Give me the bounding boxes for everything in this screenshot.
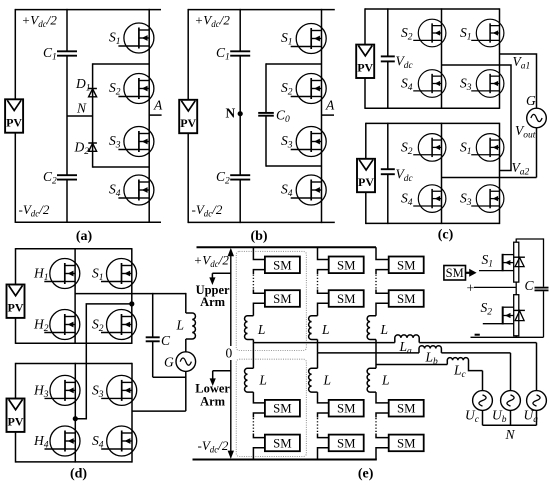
wire leg2 SM2 to coil [318, 303, 329, 315]
submodule SM leg2 row1 [329, 257, 364, 274]
wire top rail (b) [188, 9, 335, 11]
wire left rail lower (d) [15, 318, 17, 344]
wire left rail lower bridge upper part (d) [15, 363, 17, 399]
wire H leg lower bridge (d) [74, 363, 76, 463]
wire Va1 output (c) [500, 54, 537, 108]
wire SM detail bottom stub [515, 336, 517, 338]
svg-text:A: A [153, 98, 163, 113]
wire clamp branch bottom (a) [93, 166, 150, 168]
svg-text:(b): (b) [250, 229, 267, 244]
wire left rail lower bridge1 (c) [364, 78, 366, 109]
wire leg1 rail to SM1 [253, 247, 265, 259]
transistor S1 (a) [109, 23, 154, 53]
svg-text:Lower: Lower [195, 382, 230, 396]
wire leg1 coil to output [252, 340, 254, 343]
capacitor C1 (a) [57, 50, 77, 52]
wire output stub A (b) [322, 114, 335, 116]
transistor H4 (d) [33, 426, 80, 456]
PV source (a) [5, 99, 23, 132]
submodule SM leg1 row2 [265, 290, 300, 307]
PV source bridge1 (c) [356, 45, 374, 78]
wire flying branch bottom (b) [266, 165, 322, 167]
wire neutral N (a) [67, 115, 93, 117]
wire SM detail C branch lower [543, 291, 545, 337]
wire leg2 rail to SM1 [318, 247, 329, 259]
source Ua [524, 391, 547, 425]
wire left leg bridge1 (c) [441, 8, 443, 109]
wire leg2 dotted upper [317, 275, 319, 290]
svg-text:+: + [467, 282, 475, 297]
transistor S3 bridge1 (c) [460, 70, 504, 98]
wire top rail bridge2 (c) [366, 122, 500, 124]
transistor S3 bridge2 (c) [460, 185, 504, 213]
wire output stub A (a) [149, 114, 161, 116]
svg-text:(e): (e) [358, 467, 374, 482]
wire dc bus upper (a) [66, 9, 68, 51]
inductor L upper arm leg2 [309, 316, 318, 340]
upper arm marker arrow [209, 273, 231, 285]
wire leg3 SM4 in [376, 434, 389, 438]
wire dc bottom rail (e) [193, 459, 377, 461]
wire SM detail mid stub [515, 282, 517, 295]
svg-text:N: N [226, 106, 236, 121]
submodule SM leg3 row4 [389, 435, 424, 452]
dimension line with arrows (e) [228, 248, 234, 459]
wire left rail lower (a) [14, 133, 16, 223]
PV source (b) [179, 100, 197, 133]
svg-text:Arm: Arm [200, 395, 226, 409]
wire Ua drop [536, 343, 538, 391]
diode D2 (a) [74, 140, 97, 158]
transistor S3 (d) [92, 375, 137, 405]
wire leg1 SM2 in [253, 290, 265, 294]
svg-text:L: L [321, 322, 330, 337]
wire leg3 rail to SM1 [376, 247, 389, 259]
wire left rail upper (d) [15, 248, 17, 285]
group box lower arm (gray) [236, 359, 306, 456]
inductor Lc [447, 358, 482, 380]
wire leg3 SM2 to coil [376, 303, 389, 315]
transistor H3 (d) [33, 375, 80, 405]
submodule SM leg3 row1 [389, 257, 424, 274]
transistor S2 (SM detail) [481, 295, 519, 336]
wire L branch upper (d) [185, 293, 187, 313]
transistor S1 (SM detail) [479, 242, 519, 282]
wire neutral N (e) [483, 424, 537, 426]
svg-text:SM: SM [446, 266, 464, 280]
wire cross coupling (d) [75, 304, 132, 419]
wire S leg upper bridge (d) [131, 248, 133, 344]
grid source G Vout (c) [515, 93, 546, 141]
wire bottom rail bridge2 (c) [366, 222, 500, 224]
wire leg3 SM3 out [376, 413, 389, 418]
wire right leg bridge1 (c) [499, 8, 501, 109]
source Uc [465, 391, 492, 425]
wire phase b to Ub [441, 352, 510, 354]
wire SM detail top stub [515, 239, 517, 243]
transistor S2 (a) [109, 74, 154, 104]
capacitor C0 (b) [258, 112, 274, 114]
transistor S2 (b) [281, 74, 326, 104]
node junction dot upper (d) [129, 301, 134, 306]
wire leg3 dotted lower [375, 418, 377, 434]
wire Ub to N [510, 410, 512, 425]
svg-text:(a): (a) [76, 229, 93, 244]
wire dc bus upper (b) [239, 9, 241, 51]
wire cap branch lower bridge1 (c) [387, 61, 389, 109]
transistor H2 (d) [33, 310, 80, 340]
wire lower output tap (d) [132, 410, 186, 412]
diode D1 (a) [75, 76, 97, 97]
submodule SM leg1 row4 [265, 435, 300, 452]
source G (d) [164, 352, 196, 372]
inductor L upper arm leg3 [367, 316, 376, 340]
inductor Lb [419, 346, 441, 367]
svg-text:(c): (c) [438, 228, 454, 243]
svg-text:(d): (d) [70, 467, 87, 482]
wire lower bridge top rail (d) [16, 363, 133, 365]
wire G to bottom node (d) [185, 371, 187, 411]
wire leg2 dotted lower [317, 418, 319, 434]
inductor L lower arm leg2 [309, 368, 318, 392]
transistor S2 bridge2 (c) [401, 134, 446, 162]
capacitor C1 (b) [230, 50, 250, 52]
wire leg2 coil to output [317, 340, 319, 353]
wire leg1 dotted upper [252, 275, 254, 290]
PV source bridge2 (c) [357, 159, 375, 192]
transistor S1 (d) [92, 259, 137, 289]
wire leg3 coil to SM3 [376, 392, 389, 403]
svg-text:0: 0 [226, 346, 233, 361]
wire leg1 SM2 to coil [253, 303, 265, 315]
wire H leg upper bridge (d) [74, 248, 76, 344]
svg-text:L: L [381, 373, 390, 388]
wire phase c line [376, 364, 447, 366]
submodule legend box SM [444, 266, 466, 281]
wire leg2 SM1 out [318, 270, 329, 274]
wire dc bus middle (a) [66, 56, 68, 176]
arrow SM to detail [466, 269, 477, 277]
submodule SM leg2 row3 [329, 400, 364, 417]
wire leg1 SM3 out [253, 413, 265, 418]
svg-text:Arm: Arm [200, 295, 226, 309]
submodule SM leg1 row1 [265, 257, 300, 274]
transistor S3 (a) [109, 127, 154, 157]
wire flying branch upper vertical (b) [265, 63, 267, 113]
wire Uc drop [482, 371, 484, 391]
transistor S4 bridge1 (c) [401, 70, 446, 98]
wire leg2 SM4 to bottom rail [318, 448, 329, 460]
source Ub [492, 391, 520, 425]
wire leg1 dotted lower [252, 418, 254, 434]
wire cap branch upper bridge1 (c) [387, 8, 389, 56]
wire SM detail plus terminal [467, 282, 517, 297]
wire clamp branch top (a) [93, 63, 150, 65]
submodule SM leg3 row2 [389, 290, 424, 307]
svg-text:G: G [526, 93, 536, 108]
wire G to Va2 (c) [536, 128, 538, 178]
wire bottom rail upper bridge (d) [16, 342, 132, 344]
wire top rail upper bridge (d) [16, 248, 132, 250]
wire phase b line [318, 352, 420, 354]
diode of S1 (SM detail) [514, 257, 525, 266]
wire cap branch lower bridge2 (c) [387, 174, 389, 224]
inductor L lower arm leg1 [245, 368, 254, 392]
svg-text:L: L [176, 318, 185, 333]
wire right leg bridge2 (c) [499, 123, 501, 224]
transistor S1 bridge2 (c) [460, 134, 504, 162]
wire phase a line [253, 342, 394, 344]
wire bottom rail (b) [188, 221, 335, 223]
submodule SM leg1 row3 [265, 400, 300, 417]
lower arm marker arrow [210, 371, 231, 386]
wire C branch lower (d) [152, 341, 154, 377]
wire left leg bridge2 (c) [441, 123, 443, 224]
wire phase a to Ua [419, 342, 536, 344]
wire bottom rail bridge1 (c) [365, 107, 500, 109]
submodule SM leg2 row2 [329, 290, 364, 307]
wire upper output tap (d) [75, 293, 186, 295]
wire clamp branch vertical (a) [92, 63, 94, 167]
wire top rail (a) [15, 9, 161, 11]
capacitor C2 (b) [230, 174, 250, 176]
inductor L upper arm leg1 [245, 316, 254, 340]
node junction dot lower (d) [73, 416, 78, 421]
wire leg2 output to lower coil [317, 353, 319, 368]
node N dot and label (b) [226, 106, 243, 121]
wire cascade link (c) [442, 65, 512, 171]
transistor S1 bridge1 (c) [460, 19, 504, 47]
wire lower bridge bottom rail (d) [16, 461, 133, 463]
wire left rail lower bridge lower part (d) [15, 432, 17, 463]
inductor La [395, 335, 419, 357]
transistor S4 (a) [109, 175, 154, 205]
transistor S3 (b) [281, 127, 326, 157]
svg-text:G: G [164, 355, 174, 370]
wire flying branch lower vertical (b) [265, 116, 267, 167]
wire Uc to N [482, 410, 484, 425]
capacitor C (SM detail) [525, 278, 549, 293]
wire Va2 output (c) [442, 177, 537, 179]
svg-text:N: N [505, 427, 516, 442]
capacitor C2 (a) [57, 174, 77, 176]
wire SM detail C branch upper [543, 238, 545, 286]
submodule SM leg3 row3 [389, 400, 424, 417]
wire left rail lower (b) [187, 133, 189, 223]
wire L to G (d) [185, 339, 187, 352]
diode of S2 (SM detail) [514, 310, 525, 320]
svg-text:L: L [258, 373, 267, 388]
svg-text:A: A [325, 98, 335, 113]
svg-text:C: C [161, 333, 171, 348]
PV source lower (d) [7, 399, 25, 432]
wire leg2 coil to SM3 [318, 392, 329, 403]
wire SM detail minus terminal [471, 335, 544, 338]
wire leg3 SM1 out [376, 270, 389, 274]
wire dc bus lower (b) [239, 180, 241, 224]
svg-text:C: C [525, 278, 535, 293]
wire C branch upper (d) [152, 293, 154, 337]
transistor S2 bridge1 (c) [401, 19, 446, 47]
wire leg2 SM4 in [318, 434, 329, 438]
svg-text:N: N [76, 101, 87, 116]
capacitor Vdc bridge1 (c) [381, 55, 395, 57]
wire dc bus middle (b) [239, 56, 241, 176]
wire dc bus lower (a) [66, 180, 68, 223]
transistor S4 (d) [92, 426, 137, 456]
wire Ua to N [536, 410, 538, 425]
wire leg3 dotted upper [375, 275, 377, 290]
inductor L (d) [176, 313, 196, 339]
svg-text:L: L [323, 373, 332, 388]
wire left rail upper bridge1 (c) [364, 8, 366, 45]
wire left rail upper (a) [14, 9, 16, 100]
wire switch chain (b) [321, 9, 323, 223]
wire SM detail top link [516, 238, 543, 240]
submodule SM leg2 row4 [329, 435, 364, 452]
wire leg3 output to lower coil [375, 364, 377, 368]
inductor L lower arm leg3 [367, 368, 376, 392]
transistor S4 (b) [281, 175, 326, 205]
wire left rail upper bridge2 (c) [365, 123, 367, 159]
wire cap branch upper bridge2 (c) [387, 123, 389, 170]
transistor S4 bridge2 (c) [401, 185, 446, 213]
transistor S2 (d) [92, 310, 137, 340]
wire bottom rail (a) [15, 221, 161, 223]
wire leg1 SM1 out [253, 270, 265, 274]
wire leg1 SM4 in [253, 434, 265, 438]
wire leg2 SM3 out [318, 413, 329, 418]
wire leg3 SM4 to bottom rail [376, 448, 389, 460]
wire dc top rail (e) [197, 246, 377, 248]
PV source upper (d) [7, 285, 25, 318]
wire left rail upper (b) [187, 9, 189, 100]
wire Ub drop [510, 353, 512, 391]
wire left rail lower bridge2 (c) [365, 192, 367, 224]
wire S leg lower bridge (d) [131, 363, 133, 463]
wire leg3 coil to output [375, 340, 377, 365]
transistor S1 (b) [281, 24, 326, 54]
svg-text:L: L [380, 322, 389, 337]
group box upper arm (gray) [236, 251, 306, 350]
wire leg1 SM4 to bottom rail [253, 448, 265, 460]
wire C bottom link (d) [153, 376, 186, 378]
wire leg1 output to lower coil [252, 343, 254, 369]
transistor H1 (d) [33, 259, 80, 289]
wire flying branch top (b) [266, 63, 322, 65]
capacitor Vdc bridge2 (c) [381, 168, 395, 170]
wire top rail bridge1 (c) [365, 8, 500, 10]
wire switch chain (a) [148, 9, 150, 223]
wire leg3 SM2 in [376, 290, 389, 294]
wire leg1 coil to SM3 [253, 392, 265, 403]
capacitor C (d) [146, 336, 160, 338]
svg-text:L: L [257, 322, 266, 337]
wire leg2 SM2 in [318, 290, 329, 294]
